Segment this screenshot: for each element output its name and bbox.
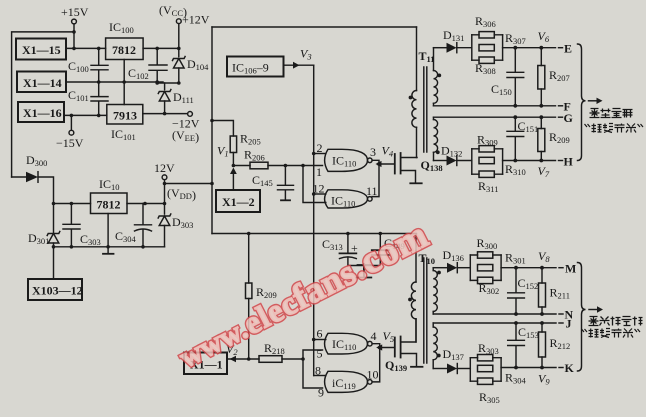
wire pin2 from V3 bus <box>314 153 326 155</box>
arrow bypass <box>589 309 598 311</box>
ground <box>107 247 109 254</box>
svg-text:J: J <box>566 317 572 331</box>
wire F line <box>434 105 556 107</box>
svg-text:9: 9 <box>318 386 324 400</box>
arrow inverter <box>589 100 598 102</box>
wire +15V lead <box>73 24 75 49</box>
wire to gate4 pin9 <box>303 359 323 388</box>
wire -12V <box>143 113 188 115</box>
wire K line <box>433 368 446 370</box>
transistor Q139 <box>394 338 396 357</box>
capacitor C152 <box>508 268 525 314</box>
node -15V terminal <box>70 115 72 130</box>
T11 primary <box>416 27 418 91</box>
wire VCC lead <box>178 24 180 57</box>
wire bottom rail <box>212 233 417 235</box>
brace inverter <box>578 44 586 161</box>
node V5 <box>372 344 380 382</box>
svg-text:X1—2: X1—2 <box>222 195 255 209</box>
T10 secondary 2 <box>432 323 434 327</box>
T10 secondary 1 <box>432 268 434 271</box>
wire V3 bus <box>313 65 315 375</box>
connector X1-16 <box>18 102 64 122</box>
diode D104 zener <box>174 59 185 69</box>
gate IC119 <box>325 371 368 392</box>
svg-text:4: 4 <box>371 329 377 343</box>
connector X103-12 <box>28 279 82 300</box>
connector X1-1 <box>184 353 227 375</box>
wire 7812-7913 gnd pin <box>123 60 125 105</box>
wire pin6 from V3 bus <box>314 339 326 341</box>
svg-text:3: 3 <box>370 145 376 159</box>
svg-text:−15V: −15V <box>56 136 84 150</box>
svg-text:H: H <box>564 155 574 169</box>
text to-ac-bypass <box>589 317 643 326</box>
connector X1-14 <box>17 72 66 93</box>
node V3 arrow <box>293 62 300 69</box>
text static-switch quoted top <box>585 124 644 133</box>
wire M line <box>433 267 446 269</box>
svg-text:5: 5 <box>317 347 323 361</box>
wire row1 right <box>143 47 179 49</box>
capacitor C304 polarized <box>135 204 152 225</box>
resistor R212 <box>541 323 543 332</box>
resistor R207 <box>540 48 542 66</box>
svg-text:K: K <box>565 361 575 375</box>
text to-inverter <box>590 109 633 118</box>
T11 core <box>424 67 427 152</box>
gate IC110 A <box>325 149 368 171</box>
gate IC110 B <box>325 190 368 208</box>
diode D303 zener <box>159 216 170 226</box>
wire pin12 from V3 bus <box>314 193 326 195</box>
capacitor C153 <box>508 323 525 368</box>
gate IC110 C <box>325 333 368 354</box>
wire J line <box>433 322 556 324</box>
svg-text:M: M <box>565 262 576 276</box>
svg-text:7913: 7913 <box>113 109 137 123</box>
capacitor C303 <box>63 204 80 247</box>
svg-text:+12V: +12V <box>182 13 210 27</box>
wire top rail <box>212 26 417 28</box>
regulator IC101 7913 <box>107 105 143 125</box>
svg-text:10: 10 <box>367 368 379 382</box>
svg-text:X1—16: X1—16 <box>23 106 62 120</box>
svg-text:12V: 12V <box>154 161 175 175</box>
svg-text:7812: 7812 <box>112 43 136 57</box>
wire VDD to bus <box>165 183 213 185</box>
diode D111 zener <box>164 83 166 90</box>
wire IC106 out <box>284 64 314 66</box>
wire to gate3 pin5 <box>303 350 323 359</box>
source box IC106-9 <box>227 57 284 77</box>
ground <box>363 264 365 277</box>
svg-text:G: G <box>564 111 573 125</box>
wire X1-2 arrow up <box>232 171 234 190</box>
wire IC10 gnd pin <box>107 214 109 247</box>
svg-text:7812: 7812 <box>97 198 121 212</box>
T10 core <box>424 258 427 363</box>
wire middle bus <box>211 27 213 234</box>
wire E line <box>434 47 447 49</box>
wire left bus <box>12 32 74 177</box>
node -12V VEE terminal <box>188 112 193 117</box>
wire row3 <box>64 114 107 116</box>
wire y83 <box>157 82 179 84</box>
svg-text:E: E <box>564 42 572 56</box>
wire pin13 <box>303 166 326 203</box>
capacitor C151 <box>507 117 524 160</box>
brace bypass <box>578 263 586 372</box>
node V4 <box>372 160 379 196</box>
resistor R205 <box>212 121 233 137</box>
wire row1 <box>66 47 106 49</box>
watermark www.elecfans.com <box>171 214 435 376</box>
text static-switch quoted bottom <box>582 329 641 338</box>
wire ground rail <box>54 246 165 248</box>
resistor R211 <box>541 268 543 283</box>
capacitor C150 <box>507 48 524 106</box>
connector X1-2 <box>216 190 260 212</box>
svg-text:1: 1 <box>316 165 322 179</box>
wire G line <box>434 116 556 118</box>
wire row2 <box>66 81 163 83</box>
wire pin8 from V3 bus <box>314 375 326 377</box>
connector X1-15 <box>16 39 66 60</box>
T11 secondary 2 <box>433 117 435 119</box>
T11 secondary 1 <box>433 48 435 71</box>
svg-text:6: 6 <box>317 327 323 341</box>
resistor R209 mid <box>248 234 250 284</box>
svg-text:X103—12: X103—12 <box>32 284 83 298</box>
svg-text:X1—15: X1—15 <box>22 43 61 57</box>
T10 primary <box>415 234 417 283</box>
wire VDD rail <box>54 203 91 205</box>
wire N line <box>433 313 556 315</box>
transistor Q138 <box>394 154 396 174</box>
resistor R209 <box>540 117 542 128</box>
svg-text:X1—14: X1—14 <box>23 76 62 90</box>
svg-text:+15V: +15V <box>61 5 89 19</box>
